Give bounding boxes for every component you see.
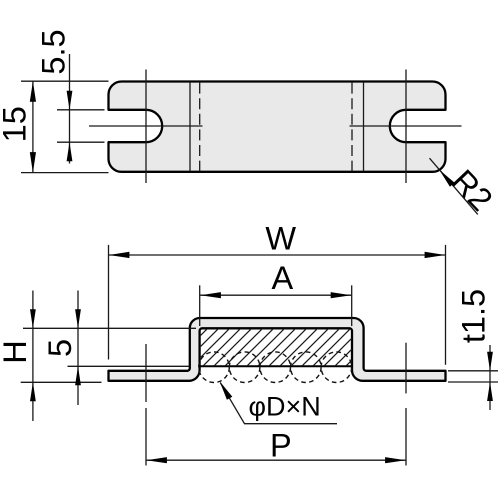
hidden bend line right (dashed) [351,83,353,171]
dim A extension right [351,285,353,326]
section centerline right [405,343,407,394]
dim 5 extension bottom [68,365,190,367]
hidden bend line left (dashed) [199,83,201,171]
section centerline left [145,344,147,402]
svg-text:t1.5: t1.5 [456,289,492,343]
dim P extension left [145,408,147,466]
dim H extension top [23,327,196,329]
dim 5.5 extension bottom [57,141,105,143]
dim 5 line [77,291,79,406]
plate outline with end slots [108,82,445,172]
slot centerline horizontal right [350,125,462,127]
hole circle 1 (dashed, phi D) [199,352,230,383]
hole circle 2 (dashed, phi D) [229,352,260,383]
leader phi D x N [220,383,337,424]
svg-text:A: A [271,260,293,296]
dim 5.5 line [69,54,71,164]
svg-text:P: P [270,427,292,463]
svg-text:5: 5 [42,339,78,357]
svg-text:φD×N: φD×N [249,392,321,422]
hole circle 4 (dashed, phi D) [291,352,322,383]
dim H line [32,291,34,422]
hole circle 5 (dashed, phi D) [321,352,352,383]
dim 15 extension top [21,80,109,82]
dim W extension left [108,245,110,360]
leader R2 [430,158,478,214]
dim W extension right [445,245,447,365]
hole circle 3 (dashed, phi D) [260,352,291,383]
svg-text:W: W [265,221,296,257]
svg-text:H: H [0,340,33,363]
dim P extension right [405,408,407,466]
dim 15 extension bottom [21,172,109,174]
hatching of insert block [201,329,352,365]
dim A extension left [199,285,201,326]
hat channel sheet profile [109,318,446,381]
svg-text:15: 15 [0,106,33,142]
dim A line [200,294,352,296]
slot centerline vertical right [405,70,407,184]
dim t1.5 line [489,345,491,410]
slot centerline vertical left [145,70,147,184]
svg-text:5.5: 5.5 [36,29,72,74]
bend line left (solid) [189,83,191,171]
dim t1.5 extension top [448,370,498,372]
dim 15 line [32,81,34,172]
dim 5.5 extension top [57,109,105,111]
slot centerline horizontal left [89,125,203,127]
dim H extension bottom [21,381,102,383]
bend line right (solid) [363,83,365,171]
hatched insert block bottom edge [200,365,351,367]
dim W line [109,254,446,256]
dim t1.5 extension bottom [448,381,498,383]
dim P line [146,459,406,461]
